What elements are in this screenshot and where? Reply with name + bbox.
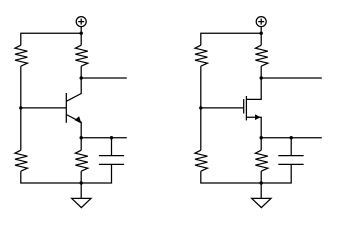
transistor M1 (NMOS) [244, 78, 262, 138]
node: capacitor C2 top junction [290, 136, 293, 139]
resistor R2 [75, 45, 87, 66]
capacitor C1 [99, 138, 124, 165]
wire: bottom rail with C2 and R7 leads [201, 164, 291, 183]
wire: bottom rail with C1 and R3 leads [21, 164, 112, 183]
resistor R4 [75, 150, 87, 171]
resistor R5 [195, 45, 207, 66]
ground [72, 183, 91, 208]
wire: R8 top lead [260, 138, 262, 151]
wire: emitter output stub [81, 137, 127, 139]
resistor R8 [255, 150, 267, 171]
wire: R2 top lead [80, 33, 82, 45]
resistor R3 [15, 150, 27, 171]
node: base junction [19, 106, 22, 109]
node: top rail junction [260, 32, 263, 35]
wire: supply lead [80, 27, 82, 34]
node: top rail junction [80, 32, 83, 35]
ground [252, 183, 271, 208]
wire: top rail + R5 top lead [201, 33, 261, 45]
node: collector junction [80, 76, 83, 79]
wire: collector output stub [81, 77, 127, 79]
wire: left branch vertical [200, 66, 202, 150]
power supply V+ symbol (circle with plus) [256, 17, 266, 27]
node: source junction [260, 136, 263, 139]
wire: supply lead [260, 27, 262, 34]
node: ground junction [80, 181, 83, 184]
wire: left branch vertical [20, 66, 22, 150]
wire: R4 top lead [80, 138, 82, 151]
wire: top rail + R1 top lead [21, 33, 81, 45]
capacitor C2 [278, 138, 303, 165]
power supply V+ symbol (circle with plus) [76, 17, 86, 27]
wire: gate wire [201, 107, 244, 109]
resistor R1 [15, 45, 27, 66]
node: capacitor C1 top junction [110, 136, 113, 139]
wire: source output stub [261, 137, 322, 139]
node: ground junction [260, 181, 263, 184]
wire: R2 bottom lead [80, 66, 82, 78]
wire: base wire [21, 107, 67, 109]
node: drain junction [260, 76, 263, 79]
node: emitter junction [80, 136, 83, 139]
wire: R6 top lead [260, 33, 262, 45]
wire: R4 bottom lead [80, 171, 82, 183]
wire: R8 bottom lead [260, 171, 262, 183]
resistor R6 [255, 45, 267, 66]
wire: drain output stub [261, 77, 322, 79]
resistor R7 [195, 150, 207, 171]
node: gate junction [199, 106, 202, 109]
transistor Q1 (NPN BJT) [66, 78, 81, 138]
wire: R6 bottom lead [260, 66, 262, 78]
